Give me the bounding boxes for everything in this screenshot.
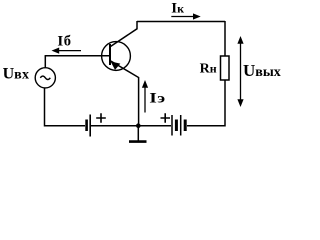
- wire bottom rail left: [45, 125, 86, 127]
- transistor emitter lead: [111, 61, 139, 126]
- wire right vertical lower: [187, 80, 225, 126]
- battery GB1 plus label: [96, 113, 106, 122]
- wire right vertical upper: [224, 21, 226, 56]
- ground lead: [137, 126, 139, 141]
- svg-text:Iэ: Iэ: [149, 89, 165, 105]
- svg-text:Iк: Iк: [171, 0, 184, 16]
- source Uvx circle: [35, 68, 55, 88]
- svg-text:Uвх: Uвх: [3, 66, 30, 83]
- current Ib arrow: [58, 50, 81, 52]
- source sine symbol: [40, 76, 50, 79]
- battery GB2 thick plate 2: [184, 120, 187, 132]
- battery GB2 plus label: [161, 113, 171, 122]
- wire bottom rail (GB1 to dot): [91, 125, 138, 127]
- svg-text:Rн: Rн: [200, 61, 217, 76]
- ground bar: [129, 140, 147, 143]
- wire source top: [44, 56, 46, 67]
- wire left vertical: [44, 88, 46, 127]
- current Ie arrow: [144, 87, 146, 113]
- wire base lead: [45, 55, 110, 57]
- resistor RH body: [221, 56, 230, 80]
- battery GB1 thick plate: [85, 120, 88, 132]
- battery GB2 thick plate 1: [175, 120, 178, 132]
- transistor emitter arrowhead: [111, 62, 119, 69]
- battery GB1 thin plate: [89, 115, 91, 137]
- output Uvyx double arrow: [240, 42, 242, 101]
- svg-text:Uвых: Uвых: [243, 61, 281, 80]
- wire bottom rail mid (dot to GB2): [138, 125, 171, 127]
- transistor base bar: [109, 44, 111, 65]
- transistor collector lead: [111, 21, 138, 47]
- battery GB2 thin plate 1: [171, 115, 173, 136]
- transistor VT1 circle: [102, 42, 131, 71]
- node junction dot: [136, 123, 141, 128]
- svg-text:Iб: Iб: [57, 33, 71, 49]
- battery GB2 thin plate 2: [180, 115, 182, 136]
- wire top rail: [137, 21, 225, 23]
- current Ik arrow: [171, 16, 194, 18]
